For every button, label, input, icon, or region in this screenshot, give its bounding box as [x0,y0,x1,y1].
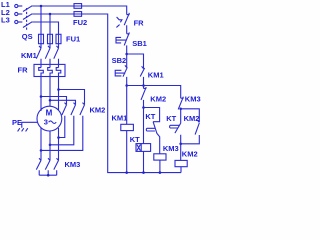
svg-text:KM2: KM2 [184,114,200,123]
wire motor lead 3 [58,90,60,111]
contactor KM3 main contact 2 [45,158,50,175]
svg-text:FU2: FU2 [73,18,87,27]
contactor KM3 coil [154,154,166,160]
switch QS blade 1 [23,6,32,12]
wire L2 to left rail and bottom rail [32,14,181,173]
svg-text:QS: QS [22,32,33,41]
wire split to KM1 aux [127,54,144,69]
terminal circle L1 [15,4,18,7]
svg-text:FR: FR [134,19,145,28]
node dot delta2 [49,144,52,147]
svg-text:KM2: KM2 [150,95,166,104]
wire L1 to control corner [32,6,126,15]
wire elbow to KM2 aux NO [181,109,200,123]
KT coil divider [137,144,141,152]
contactor KM2 coil [175,160,187,166]
node dot tap2 [49,99,52,102]
thermal relay FR box [34,64,65,76]
wire L3 to fuse 3 [32,22,58,48]
wire motor lead 2 [49,100,51,106]
wire motor lead 1 [40,97,42,111]
svg-text:KT: KT [166,114,176,123]
contactor KM3 main contact 1 [36,158,41,175]
wire motor to ground [22,122,38,128]
node dot tap1 [40,95,43,98]
svg-text:KM2: KM2 [182,150,198,159]
contactor KM2 NC interlock contact [141,86,146,108]
wire elbow to KT delayed contact [144,108,160,122]
svg-text:KT: KT [130,135,140,144]
node dot phase2 [49,13,52,16]
motor M circle [37,106,62,131]
wire feeder to right branches [127,86,181,99]
wire tap to KM2 pole3 [59,90,85,105]
wire star point bar [39,174,57,176]
wire KM3 coil to rail [159,160,161,173]
button SB1 NC stop [116,32,130,54]
motor tilde [49,121,57,124]
contactor KM2 main contact 2 [50,103,76,145]
wire drop phase1 [40,6,42,48]
relay FR NC contact (control) [124,13,129,34]
FR heater element 2 [48,68,53,101]
svg-text:KM1: KM1 [112,114,128,123]
fuse FU2 pole2 [74,12,82,17]
svg-text:KM1: KM1 [148,71,164,80]
contactor KM1 coil wire [126,86,128,125]
contactor KM3 NC interlock contact [178,97,183,124]
wire tap to KM2 pole2 [50,100,76,105]
node dot seal-in right [142,84,145,87]
svg-text:L3: L3 [1,16,10,25]
wire to KT coil [143,108,145,144]
terminal circle L3 [15,20,18,23]
switch QS linkage dashed [26,8,28,31]
switch QS blade 2 [23,14,32,20]
wire tap to KM2 pole1 [41,97,67,105]
node dot below SB1 [125,53,128,56]
contactor KM2 main contact 1 [59,103,67,138]
wire KM1 coil to rail [126,131,128,173]
ground symbol hatches [18,128,28,131]
svg-text:KM3: KM3 [185,95,201,104]
fuse FU1 pole2 [48,34,53,43]
timer KT delayed NC contact [146,122,159,154]
fuse FU1 pole3 [56,34,61,43]
contactor KM1 aux NO contact [140,66,144,85]
contactor KM1 main contact 3 [54,46,59,68]
wire KM2 coil to rail corner [180,167,182,173]
svg-text:KM3: KM3 [65,160,81,169]
wire motor bottom lead 1 [40,128,42,161]
wire L2 stub [18,13,22,15]
node dot KT branch split [142,106,145,109]
wire KT coil to rail [143,151,145,172]
terminal circle L2 [15,12,18,15]
svg-text:FR: FR [18,66,29,75]
svg-text:M: M [46,109,53,118]
wire motor bottom lead 3 [58,128,60,160]
FR trip mechanism squiggle [116,17,122,27]
contactor KM1 coil [121,124,134,130]
wire L1 stub [18,5,22,7]
svg-text:3: 3 [44,118,48,127]
svg-text:SB2: SB2 [112,56,127,65]
node dot KM3 coil rail [159,171,162,174]
timer KT delayed NO contact [170,123,181,144]
contactor KM2 aux NO contact [181,120,200,144]
wire L3 stub [18,21,22,23]
node dot above KM2 coil [179,143,182,146]
wire drop phase2 [49,14,51,48]
svg-text:KM1: KM1 [21,51,37,60]
svg-text:PE: PE [12,118,22,127]
fuse FU1 pole1 [39,34,44,43]
wire motor bottom lead 2 [49,131,51,160]
node dot star point [47,174,50,177]
node dot KM1 coil rail [125,171,128,174]
contactor KM3 main contact 3 [54,158,59,175]
switch QS blade 3 [23,22,32,28]
node dot KM3 branch split [179,108,182,111]
node dot delta3 [40,149,43,152]
contactor KM1 main contact 1 [36,46,41,68]
FR heater element 1 [39,68,44,97]
svg-text:SB1: SB1 [132,39,147,48]
node dot tap3 [57,88,60,91]
contactor KM2 main contact 3 [41,103,85,151]
svg-text:KM3: KM3 [163,144,179,153]
timer KT coil [136,144,151,152]
node dot seal-in left [125,84,128,87]
FR heater element 3 [56,68,61,90]
node dot phase1 [40,5,43,8]
fuse FU2 pole1 [74,4,82,9]
node dot KT coil rail [142,171,145,174]
svg-text:KT: KT [145,112,155,121]
node dot delta1 [57,136,60,139]
button SB2 NO start [115,54,127,86]
svg-text:FU1: FU1 [66,35,80,44]
wire KM2 coil top [180,144,182,161]
svg-text:KM2: KM2 [90,106,106,115]
contactor KM1 main contact 2 [45,46,50,68]
